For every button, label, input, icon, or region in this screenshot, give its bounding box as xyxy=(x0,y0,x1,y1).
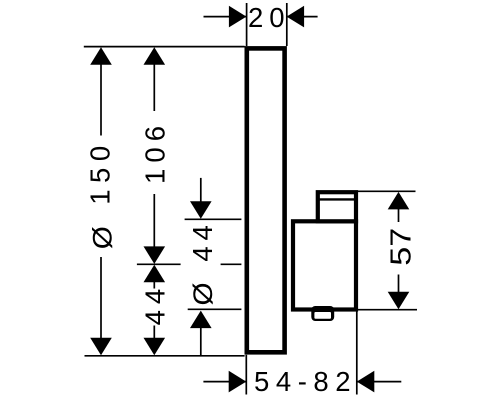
dim 20 left extension line xyxy=(246,3,248,46)
dim 150 bottom arrowhead xyxy=(90,338,112,356)
valve body xyxy=(293,221,356,309)
dim 54-82 right extension line xyxy=(356,311,358,395)
dim diameter-44 bottom arrowhead xyxy=(190,311,212,329)
dim 54-82 left arrowhead xyxy=(229,371,247,393)
svg-text:106: 106 xyxy=(140,126,171,184)
dim 44 lower line segment xyxy=(153,326,155,343)
dim 106 bottom arrowhead (hourglass upper) xyxy=(144,246,166,264)
dim diameter-44 top leader line xyxy=(200,178,202,204)
dim 20 left leader line xyxy=(204,16,247,18)
bottom extension line (plate bottom) xyxy=(85,355,245,357)
dim 57 top arrowhead xyxy=(388,192,410,210)
dim 54-82 right leader line xyxy=(357,381,401,383)
dim 44 bottom arrowhead xyxy=(144,338,166,356)
dim 57 upper line segment xyxy=(398,205,400,222)
dim 20 left arrowhead xyxy=(229,6,247,28)
centerline tick right segment xyxy=(221,263,242,265)
dim 106 upper line segment xyxy=(153,60,155,111)
dim 20 right arrowhead xyxy=(287,6,305,28)
centerline tick left segment xyxy=(137,263,181,265)
bottom tab window xyxy=(314,312,331,319)
dim diameter-44 top tick xyxy=(185,218,242,220)
top extension line (plate top) xyxy=(84,46,245,48)
dim 54-82 right arrowhead xyxy=(357,371,375,393)
dim diameter-44 bottom leader line xyxy=(200,324,202,355)
dim 44 upper line segment xyxy=(153,281,155,289)
dim 150 top arrowhead xyxy=(90,47,112,65)
dim 57 bottom arrowhead xyxy=(388,292,410,310)
dim 57 lower line segment xyxy=(398,275,400,297)
knob inner line xyxy=(318,198,355,200)
svg-text:Ø: Ø xyxy=(87,226,117,249)
dim 150 upper line segment xyxy=(100,60,102,136)
dim 54-82 left leader line xyxy=(203,381,246,383)
dim 57 top tick xyxy=(357,190,416,192)
dim diameter-44 bottom tick xyxy=(188,308,242,310)
dim 54-82 left extension line xyxy=(245,355,247,395)
svg-text:150: 150 xyxy=(84,146,115,205)
wall plate (side view, 20 thick x 150 tall) xyxy=(247,48,285,352)
dim 106 lower line segment xyxy=(153,194,155,248)
svg-text:54-82: 54-82 xyxy=(254,366,351,397)
dim 20 right extension line xyxy=(286,3,288,46)
knob on top of body xyxy=(318,192,356,221)
dim diameter-44 top arrowhead xyxy=(190,201,212,219)
svg-text:Ø: Ø xyxy=(187,282,217,305)
dim 106 top arrowhead xyxy=(144,47,166,65)
bottom tab outline xyxy=(311,306,334,321)
dim 20 right leader line xyxy=(287,16,318,18)
dim 57 bottom tick xyxy=(357,309,417,311)
svg-text:57: 57 xyxy=(386,228,418,266)
dim 44 top arrowhead (hourglass lower) xyxy=(144,265,166,283)
dim 150 lower line segment xyxy=(100,257,102,342)
